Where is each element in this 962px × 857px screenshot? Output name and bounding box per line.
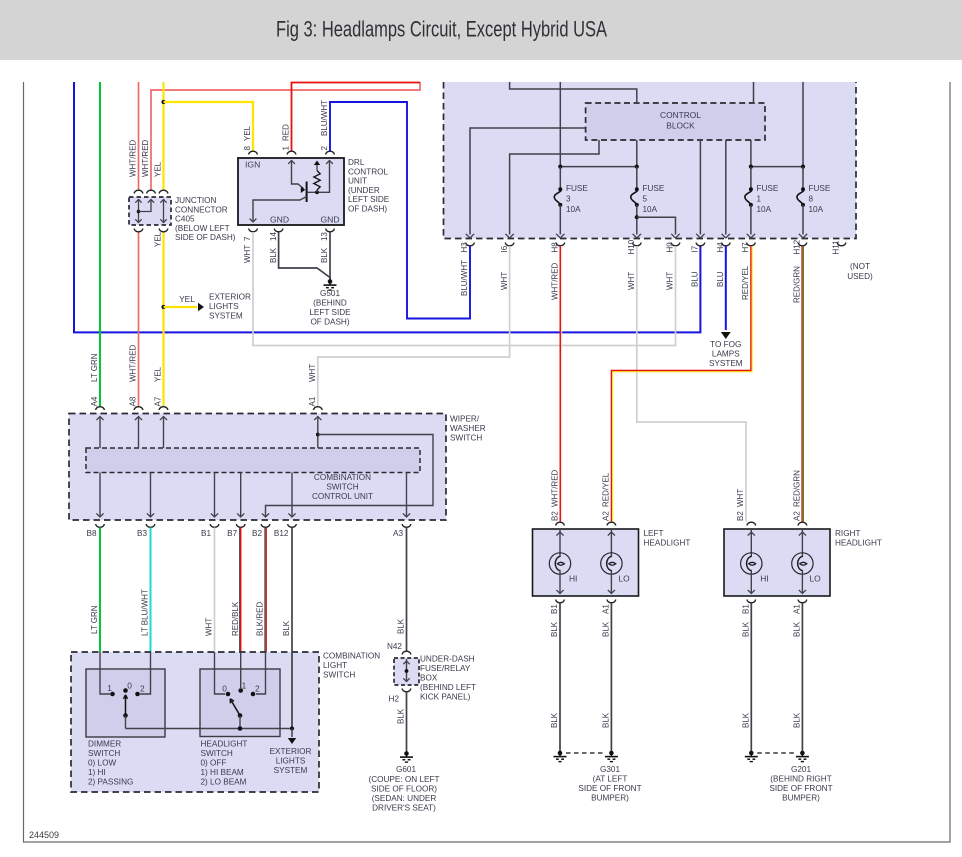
svg-text:WHT: WHT [205, 618, 214, 636]
svg-text:LEFT SIDE: LEFT SIDE [348, 195, 390, 204]
svg-text:SYSTEM: SYSTEM [709, 359, 743, 368]
wire feed stub into box top [510, 82, 637, 103]
wire BLK right A1 to G201 [801, 603, 803, 752]
svg-text:OF DASH): OF DASH) [310, 318, 349, 327]
svg-text:BOX: BOX [420, 674, 438, 683]
wire BLK left B1 to G301 [559, 603, 561, 752]
DRL pin1 internal [292, 160, 304, 189]
svg-text:COMBINATION: COMBINATION [314, 473, 371, 482]
svg-text:B7: B7 [227, 529, 237, 538]
Q1 collector to pin 2 [307, 160, 330, 192]
pin H7 [747, 243, 756, 246]
svg-text:HEADLIGHT: HEADLIGHT [201, 740, 248, 749]
svg-text:A2: A2 [793, 511, 802, 521]
node YEL splice to exterior lights [161, 305, 165, 309]
svg-text:H4: H4 [716, 242, 725, 253]
ground G301 [558, 751, 563, 756]
svg-text:FUSE: FUSE [643, 184, 665, 193]
svg-text:BLK: BLK [397, 708, 406, 724]
svg-text:LAMPS: LAMPS [712, 350, 740, 359]
pin I6 [505, 243, 514, 246]
svg-text:SIDE OF FRONT: SIDE OF FRONT [578, 784, 641, 793]
svg-text:1: 1 [107, 683, 112, 693]
svg-text:13: 13 [320, 232, 329, 241]
wire LT GRN entry to A4 [99, 82, 101, 406]
svg-text:SYSTEM: SYSTEM [209, 312, 243, 321]
svg-text:BLK: BLK [793, 712, 802, 728]
svg-text:SWITCH: SWITCH [88, 749, 120, 758]
pin H3 [466, 243, 475, 246]
svg-text:G301: G301 [600, 765, 620, 774]
svg-text:(BEHIND LEFT: (BEHIND LEFT [420, 683, 476, 692]
transistor Q1 [306, 182, 308, 203]
svg-text:RED/GRN: RED/GRN [793, 470, 802, 507]
svg-text:B1: B1 [550, 604, 559, 614]
pin H10 [633, 243, 642, 246]
left headlight [533, 529, 639, 596]
svg-text:BLK: BLK [550, 712, 559, 728]
svg-text:H2: H2 [389, 695, 400, 704]
svg-text:A1: A1 [793, 604, 802, 614]
DRL control unit U1 [238, 158, 344, 225]
wire control block to fuse 1 [750, 140, 752, 167]
wire YEL branch to DRL IGN [161, 100, 165, 104]
wire BLK B12 to switch rail [291, 528, 293, 653]
svg-text:YEL: YEL [154, 366, 163, 382]
pin A1 [314, 407, 323, 410]
wire BLK H2 to G601 [406, 692, 408, 752]
Q1 emitter to pin 7 [253, 197, 307, 222]
svg-text:EXTERIOR: EXTERIOR [209, 293, 251, 302]
svg-text:A2: A2 [602, 511, 611, 521]
dimmer switch S1 [86, 669, 165, 737]
svg-text:H10: H10 [627, 239, 636, 254]
svg-text:I7: I7 [691, 245, 700, 252]
svg-text:1: 1 [282, 146, 291, 151]
svg-text:B2: B2 [551, 511, 560, 521]
fuse 1 [750, 167, 752, 190]
svg-text:BLU/WHT: BLU/WHT [320, 100, 329, 136]
svg-text:A4: A4 [90, 396, 99, 406]
wire BLU/WHT DRL pin2 to H3 [330, 102, 470, 319]
svg-text:WHT: WHT [500, 272, 509, 290]
svg-text:HI: HI [569, 574, 577, 584]
svg-text:BLOCK: BLOCK [666, 121, 695, 131]
headlight switch contacts [215, 652, 226, 694]
headlight switch wiper [231, 701, 240, 716]
svg-text:UNIT: UNIT [348, 177, 367, 186]
node A1 branch [316, 433, 320, 437]
wire B12 to rail [291, 652, 293, 729]
svg-text:BLK: BLK [269, 247, 278, 263]
svg-text:10A: 10A [566, 205, 581, 214]
wire fuse 5 to H9 [637, 217, 676, 234]
wire control block to fuse bus [636, 140, 638, 167]
svg-text:244509: 244509 [29, 830, 59, 840]
fuse bus left [560, 166, 637, 168]
svg-text:10A: 10A [643, 205, 658, 214]
pin B1 [210, 524, 219, 527]
svg-text:FUSE: FUSE [809, 184, 831, 193]
combination light switch box [71, 652, 319, 792]
wire A1 branch to B2 [266, 435, 434, 517]
fuse 3 [559, 167, 561, 190]
svg-text:LEFT: LEFT [644, 529, 664, 538]
svg-text:G201: G201 [791, 765, 811, 774]
svg-text:LIGHTS: LIGHTS [276, 757, 306, 766]
svg-text:WHT/RED: WHT/RED [129, 344, 138, 382]
svg-text:C405: C405 [175, 215, 195, 224]
svg-text:SYSTEM: SYSTEM [274, 766, 308, 775]
svg-text:8: 8 [243, 146, 252, 151]
svg-text:B2: B2 [252, 529, 262, 538]
svg-text:SIDE OF DASH): SIDE OF DASH) [175, 233, 236, 242]
svg-text:YEL: YEL [154, 161, 163, 177]
pin B2 [261, 524, 270, 527]
svg-text:(BELOW LEFT: (BELOW LEFT [175, 224, 230, 233]
wire WHT/RED C405 to splice [151, 82, 420, 190]
pin H11 [837, 243, 846, 246]
svg-text:BLK: BLK [550, 621, 559, 637]
svg-text:LEFT SIDE: LEFT SIDE [309, 308, 351, 317]
svg-text:B3: B3 [137, 529, 147, 538]
svg-text:3: 3 [566, 195, 571, 204]
svg-text:LIGHT: LIGHT [323, 661, 347, 670]
svg-text:1: 1 [757, 195, 762, 204]
wire WHT B1 to headlight switch [214, 528, 216, 653]
svg-text:7: 7 [243, 236, 252, 241]
svg-text:CONTROL: CONTROL [348, 167, 388, 176]
svg-text:1) HI: 1) HI [88, 768, 106, 777]
wire RED/GRN H12 to right headlight A2 [801, 246, 803, 522]
svg-text:14: 14 [269, 232, 278, 241]
svg-text:N42: N42 [387, 642, 402, 651]
pin A8 [134, 407, 143, 410]
wire BLK right B1 to G201 [750, 603, 752, 752]
svg-text:RED/YEL: RED/YEL [602, 472, 611, 507]
svg-text:BLK: BLK [282, 620, 291, 636]
wire WHT DRL pin7 to H9 [253, 232, 676, 346]
arrow exterior lights system (bottom) [291, 729, 293, 738]
resistor R1 [316, 190, 318, 192]
svg-text:H7: H7 [741, 242, 750, 253]
wire BLK A3 to N42 [406, 528, 408, 652]
wire LT BLU/WHT B3 to dimmer [150, 528, 152, 653]
svg-text:Fig 3: Headlamps Circuit, Exce: Fig 3: Headlamps Circuit, Except Hybrid … [276, 17, 607, 42]
svg-text:H9: H9 [666, 242, 675, 253]
svg-text:(NOT: (NOT [850, 262, 870, 271]
svg-text:BLK: BLK [320, 247, 329, 263]
svg-text:A3: A3 [393, 529, 403, 538]
svg-text:B2: B2 [736, 511, 745, 521]
svg-text:H11: H11 [832, 240, 841, 255]
C405 internal links [138, 199, 140, 223]
svg-text:RED/GRN: RED/GRN [793, 266, 802, 303]
svg-text:0: 0 [222, 683, 227, 693]
combination switch control unit inner box [86, 448, 420, 473]
svg-text:RED/BLK: RED/BLK [231, 601, 240, 636]
wire BLK left A1 to G301 [610, 603, 612, 752]
svg-text:USED): USED) [847, 272, 873, 281]
under-dash fuse/relay box N42 [402, 651, 411, 654]
svg-text:(UNDER: (UNDER [348, 186, 380, 195]
svg-text:2) PASSING: 2) PASSING [88, 778, 133, 787]
wire WHT/RED H8 to left headlight B2 [559, 246, 561, 522]
svg-text:WHT/RED: WHT/RED [551, 469, 560, 507]
svg-text:HEADLIGHT: HEADLIGHT [644, 539, 691, 548]
wire control block to H4 [725, 140, 727, 235]
svg-text:WHT: WHT [736, 489, 745, 507]
headlight switch S2 [200, 669, 280, 737]
svg-text:2: 2 [255, 683, 260, 693]
pin B12 [288, 524, 297, 527]
svg-text:CONTROL: CONTROL [660, 110, 701, 120]
svg-text:I6: I6 [500, 245, 509, 252]
svg-text:FUSE: FUSE [566, 184, 588, 193]
wire WHT/RED C405 to A8 [138, 232, 140, 407]
wire LT GRN B8 to dimmer [99, 528, 101, 653]
svg-text:(SEDAN: UNDER: (SEDAN: UNDER [372, 794, 437, 803]
wire YEL entry [162, 82, 164, 190]
wire fuse 8 feed [802, 82, 804, 167]
bulb HI right [750, 529, 752, 557]
pin H12 [798, 243, 807, 246]
svg-text:FUSE: FUSE [757, 184, 779, 193]
svg-text:UNDER-DASH: UNDER-DASH [420, 655, 475, 664]
svg-text:WHT: WHT [627, 272, 636, 290]
svg-text:G601: G601 [396, 765, 416, 774]
svg-text:WIPER/: WIPER/ [450, 415, 480, 424]
bulb LO right [801, 529, 803, 557]
under-hood fuse/relay box [444, 82, 857, 239]
svg-text:HEADLIGHT: HEADLIGHT [835, 539, 882, 548]
svg-text:WHT: WHT [308, 364, 317, 382]
svg-text:JUNCTION: JUNCTION [175, 196, 216, 205]
pin H9 [671, 243, 680, 246]
svg-text:10A: 10A [757, 205, 772, 214]
svg-text:LO: LO [619, 574, 631, 584]
svg-text:H8: H8 [551, 242, 560, 253]
bulb LO left [610, 529, 612, 557]
wire RED/BLK B7 to headlight switch [240, 528, 242, 653]
svg-text:WHT/RED: WHT/RED [129, 139, 138, 177]
svg-text:BLK: BLK [793, 621, 802, 637]
svg-text:LO: LO [810, 574, 822, 584]
svg-text:A1: A1 [602, 604, 611, 614]
fuse bus right [751, 166, 803, 168]
wire BLK/RED B2 to headlight switch [264, 528, 266, 653]
svg-text:YEL: YEL [243, 125, 252, 141]
svg-text:EXTERIOR: EXTERIOR [270, 747, 312, 756]
svg-text:H3: H3 [460, 242, 469, 253]
wire BLU long loop (I7 feed) [74, 82, 700, 332]
svg-text:(AT LEFT: (AT LEFT [593, 775, 628, 784]
svg-text:LT GRN: LT GRN [90, 605, 99, 634]
svg-text:RED/YEL: RED/YEL [741, 265, 750, 300]
svg-text:BLU/WHT: BLU/WHT [460, 260, 469, 296]
svg-text:WHT: WHT [666, 272, 675, 290]
svg-text:BUMPER): BUMPER) [591, 794, 629, 803]
svg-text:KICK PANEL): KICK PANEL) [420, 693, 471, 702]
svg-text:LIGHTS: LIGHTS [209, 302, 239, 311]
svg-text:SWITCH: SWITCH [450, 434, 482, 443]
svg-text:(COUPE: ON LEFT: (COUPE: ON LEFT [369, 775, 440, 784]
svg-text:BLK/RED: BLK/RED [256, 602, 265, 636]
wire RED/YEL H7 to left headlight A2 [611, 246, 751, 522]
svg-text:1) HI BEAM: 1) HI BEAM [201, 768, 244, 777]
svg-text:SWITCH: SWITCH [201, 749, 233, 758]
svg-text:DIMMER: DIMMER [88, 740, 121, 749]
svg-text:OF DASH): OF DASH) [348, 205, 387, 214]
pin H8 [556, 243, 565, 246]
wire BLK pin14 to G501 [279, 232, 330, 280]
svg-text:BLK: BLK [602, 712, 611, 728]
svg-text:LT BLU/WHT: LT BLU/WHT [141, 589, 150, 636]
svg-text:CONNECTOR: CONNECTOR [175, 205, 228, 214]
svg-text:8: 8 [809, 195, 814, 204]
wire WHT I6 to A1 [318, 246, 510, 406]
svg-text:0: 0 [127, 680, 132, 690]
svg-text:0) OFF: 0) OFF [201, 759, 227, 768]
pin A3 [402, 524, 411, 527]
svg-text:B8: B8 [86, 529, 96, 538]
control block [586, 103, 765, 140]
svg-text:HI: HI [760, 574, 768, 584]
switch common rail [126, 728, 293, 730]
svg-text:2) LO BEAM: 2) LO BEAM [201, 778, 247, 787]
right headlight [724, 529, 830, 596]
svg-text:(BEHIND RIGHT: (BEHIND RIGHT [770, 775, 831, 784]
svg-text:1: 1 [242, 680, 247, 690]
svg-text:BLU: BLU [691, 271, 700, 287]
ground G201 [749, 751, 754, 756]
svg-text:SIDE OF FLOOR): SIDE OF FLOOR) [371, 785, 437, 794]
pin H4 [722, 243, 731, 246]
wire YEL C405 to A7 [162, 232, 164, 407]
svg-text:SIDE OF FRONT: SIDE OF FRONT [769, 784, 832, 793]
svg-text:TO FOG: TO FOG [710, 340, 741, 349]
svg-text:H12: H12 [793, 239, 802, 254]
svg-text:2: 2 [320, 146, 329, 151]
svg-text:DRIVER'S SEAT): DRIVER'S SEAT) [372, 804, 436, 813]
junction connector C405 [129, 197, 171, 225]
svg-text:WASHER: WASHER [450, 424, 486, 433]
svg-text:A7: A7 [154, 396, 163, 406]
svg-text:BLK: BLK [742, 712, 751, 728]
svg-text:2: 2 [140, 683, 145, 693]
svg-text:FUSE/RELAY: FUSE/RELAY [420, 664, 471, 673]
svg-text:SWITCH: SWITCH [326, 483, 358, 492]
svg-text:DRL: DRL [348, 158, 365, 167]
dimmer wiper [125, 697, 127, 716]
ground G501 [328, 279, 333, 284]
svg-text:COMBINATION: COMBINATION [323, 652, 380, 661]
svg-text:A1: A1 [308, 396, 317, 406]
pin I7 [696, 243, 705, 246]
svg-text:BLK: BLK [602, 621, 611, 637]
wiper/washer switch box [69, 414, 446, 521]
wire control block top feed [753, 82, 755, 103]
svg-text:B1: B1 [742, 604, 751, 614]
wire BLK pin13 to G501 [329, 232, 331, 280]
wire control block to I6 [510, 140, 599, 235]
svg-text:SWITCH: SWITCH [323, 671, 355, 680]
svg-text:LT GRN: LT GRN [90, 353, 99, 382]
pin B3 [146, 524, 155, 527]
wire WHT/RED entry to C405 [138, 82, 140, 190]
wire BLU H4 to fog lamps arrow [725, 246, 727, 330]
svg-text:WHT/RED: WHT/RED [141, 139, 150, 177]
wire WHT H10 to right headlight B2 [637, 246, 746, 522]
svg-text:WHT: WHT [243, 245, 252, 263]
svg-text:BLU: BLU [716, 271, 725, 287]
pin B8 [96, 524, 105, 527]
pin B7 [236, 524, 245, 527]
svg-text:GND: GND [270, 215, 289, 225]
header band [0, 0, 962, 60]
pin A7 [159, 407, 168, 410]
svg-text:B1: B1 [201, 529, 211, 538]
wire control block to I7 [699, 140, 701, 235]
fuse 8 [802, 167, 804, 190]
wire YEL to exterior lights arrow [164, 306, 198, 308]
wire RED splice to DRL pin 1 [292, 83, 421, 152]
svg-text:CONTROL UNIT: CONTROL UNIT [312, 492, 373, 501]
bulb HI left [559, 529, 561, 557]
svg-text:BLK: BLK [397, 618, 406, 634]
svg-text:IGN: IGN [245, 160, 260, 170]
svg-text:G501: G501 [320, 289, 340, 298]
wire control block to H3 [470, 128, 586, 235]
svg-text:5: 5 [643, 195, 648, 204]
wire fuse bus feed left [559, 82, 561, 167]
dimmer contacts [100, 652, 110, 694]
pin A4 [96, 407, 105, 410]
wire A3 internal [406, 473, 408, 517]
svg-text:A8: A8 [129, 396, 138, 406]
svg-text:B12: B12 [274, 529, 289, 538]
svg-text:BLK: BLK [742, 621, 751, 637]
ground G601 [404, 751, 409, 756]
svg-text:WHT/RED: WHT/RED [551, 262, 560, 300]
svg-text:(BEHIND: (BEHIND [313, 299, 347, 308]
svg-text:RED: RED [282, 124, 291, 141]
svg-text:YEL: YEL [179, 294, 195, 304]
svg-text:0) LOW: 0) LOW [88, 759, 116, 768]
svg-text:RIGHT: RIGHT [835, 529, 860, 538]
fuse 5 [636, 167, 638, 190]
svg-text:10A: 10A [809, 205, 824, 214]
svg-text:GND: GND [321, 215, 340, 225]
svg-text:BUMPER): BUMPER) [782, 794, 820, 803]
svg-text:YEL: YEL [154, 231, 163, 247]
